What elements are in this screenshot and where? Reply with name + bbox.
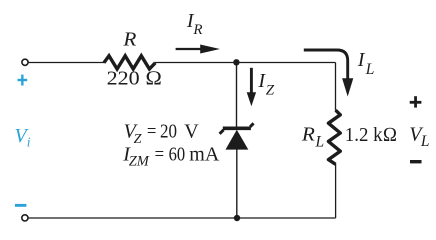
zener diode triangle (anode) [226, 130, 249, 150]
svg-text:1.2 kΩ: 1.2 kΩ [345, 124, 397, 146]
wire right vertical top (corner to RL) [335, 63, 337, 111]
svg-text:L: L [420, 133, 430, 150]
wire zener anode (triangle to bottom) [236, 150, 238, 219]
label − (output) [410, 160, 422, 163]
wire top middle segment [155, 62, 336, 64]
node junction bottom [234, 215, 240, 221]
svg-text:V: V [184, 121, 199, 143]
svg-text:I: I [357, 49, 366, 71]
svg-text:ZM: ZM [129, 154, 150, 170]
label + (output) [410, 96, 422, 107]
label + (input, cyan) [18, 75, 28, 86]
current arrow IR [176, 48, 202, 50]
svg-text:L: L [365, 61, 375, 78]
svg-text:=: = [147, 121, 157, 143]
svg-text:Z: Z [266, 83, 275, 99]
wire right vertical bottom (RL to bottom wire) [335, 164, 337, 218]
svg-text:Z: Z [134, 132, 142, 147]
svg-text:60: 60 [169, 143, 186, 165]
svg-text:R: R [301, 124, 315, 146]
zener diode bar with bent ends [223, 127, 251, 131]
current arrow IZ [250, 68, 253, 94]
svg-text:R: R [122, 29, 136, 51]
resistor RL zigzag [328, 110, 340, 164]
input terminal bottom-left [22, 215, 28, 221]
node junction top [233, 59, 239, 65]
svg-text:20: 20 [160, 121, 177, 143]
svg-text:L: L [315, 133, 325, 150]
current arrow IL (curved) [304, 50, 348, 79]
resistor R zigzag [104, 56, 155, 69]
input terminal top-left [22, 59, 28, 65]
wire top-left segment [28, 62, 104, 64]
wire bottom horizontal [28, 217, 335, 219]
svg-text:R: R [192, 22, 202, 38]
svg-text:mA: mA [189, 143, 220, 165]
svg-text:=: = [155, 143, 165, 165]
svg-text:220 Ω: 220 Ω [107, 68, 163, 90]
label − (input, cyan) [15, 204, 27, 207]
wire zener cathode (junction to bar) [236, 62, 238, 127]
